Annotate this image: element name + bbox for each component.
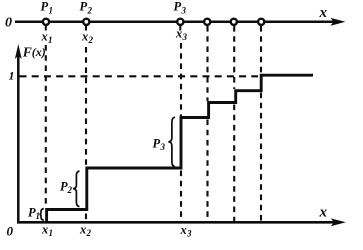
svg-text:x: x bbox=[79, 223, 86, 237]
svg-text:F: F bbox=[22, 45, 32, 60]
svg-text:x: x bbox=[41, 30, 48, 44]
svg-text:2: 2 bbox=[86, 228, 92, 238]
svg-text:2: 2 bbox=[87, 6, 93, 16]
svg-text:P: P bbox=[41, 0, 49, 14]
svg-text:3: 3 bbox=[160, 142, 166, 152]
svg-text:3: 3 bbox=[182, 32, 188, 42]
svg-text:x: x bbox=[81, 30, 88, 44]
svg-text:P: P bbox=[80, 0, 88, 14]
svg-text:1: 1 bbox=[36, 211, 41, 221]
svg-text:P: P bbox=[153, 137, 161, 151]
svg-text:x: x bbox=[175, 27, 182, 41]
svg-text:P: P bbox=[174, 0, 182, 14]
svg-text:2: 2 bbox=[67, 185, 73, 195]
svg-text:(x): (x) bbox=[32, 45, 46, 59]
svg-text:3: 3 bbox=[186, 229, 192, 239]
svg-text:1: 1 bbox=[49, 228, 54, 238]
svg-text:x: x bbox=[180, 223, 187, 237]
svg-text:3: 3 bbox=[181, 6, 187, 16]
svg-text:1: 1 bbox=[49, 6, 54, 16]
svg-text:0: 0 bbox=[5, 16, 12, 31]
svg-text:x: x bbox=[319, 205, 328, 221]
svg-text:1: 1 bbox=[9, 69, 15, 83]
svg-text:2: 2 bbox=[88, 35, 94, 45]
svg-text:x: x bbox=[41, 223, 48, 237]
svg-text:0: 0 bbox=[7, 224, 14, 239]
svg-text:1: 1 bbox=[48, 35, 53, 45]
svg-text:x: x bbox=[319, 5, 328, 21]
